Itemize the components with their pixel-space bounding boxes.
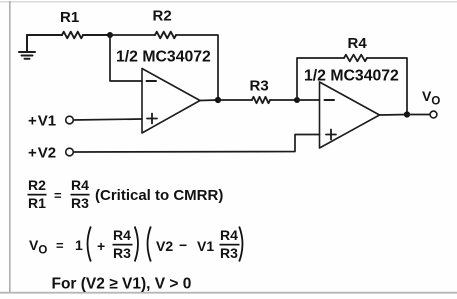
svg-text:For (V2 ≥ V1), V > 0: For (V2 ≥ V1), V > 0 xyxy=(52,276,192,293)
svg-text:(Critical to CMRR): (Critical to CMRR) xyxy=(95,187,223,204)
wire ground to R1 xyxy=(27,34,62,36)
svg-text:−: − xyxy=(179,237,187,253)
svg-text:R4: R4 xyxy=(71,177,89,193)
resistor R1 xyxy=(62,32,83,39)
svg-text:R2: R2 xyxy=(153,8,172,25)
wire node C to U2 inverting input xyxy=(297,99,320,101)
ground xyxy=(19,35,35,59)
wire U1 output to node B xyxy=(200,99,218,102)
wire R3 to node C xyxy=(270,99,297,101)
resistor R2 xyxy=(155,32,176,39)
node C xyxy=(294,97,300,103)
wire node A to U1 inverting input xyxy=(110,35,142,81)
wire node C up to R4 feedback xyxy=(297,58,344,100)
terminal +V1 open circle xyxy=(66,116,74,124)
node A xyxy=(107,32,113,38)
formula 2: VO = 1( + R4/R3)(V2 - V1 R4/R3) xyxy=(29,227,243,262)
node B xyxy=(215,97,221,103)
svg-text:R4: R4 xyxy=(220,227,238,243)
svg-text:R3: R3 xyxy=(113,245,131,261)
svg-text:+: + xyxy=(97,238,105,254)
wire R1 to node A xyxy=(83,34,110,36)
svg-text:+V2: +V2 xyxy=(28,145,56,162)
svg-text:=: = xyxy=(54,188,62,203)
svg-text:V2: V2 xyxy=(156,238,173,254)
wire +V2 to U2 noninverting input xyxy=(73,135,319,153)
op-amp U1 xyxy=(142,69,200,134)
wire node B to R3 xyxy=(218,99,252,101)
wire R2 to op-amp U1 output node xyxy=(176,35,218,100)
svg-text:1: 1 xyxy=(75,237,83,253)
op-amp U2 xyxy=(320,82,380,148)
svg-text:R3: R3 xyxy=(220,245,238,261)
resistor R3 xyxy=(252,97,270,103)
svg-text:R4: R4 xyxy=(348,35,368,52)
svg-text:1/2 MC34072: 1/2 MC34072 xyxy=(304,68,399,85)
svg-text:R3: R3 xyxy=(250,78,269,95)
svg-text:R4: R4 xyxy=(113,227,131,243)
svg-text:R1: R1 xyxy=(28,195,46,211)
svg-text:+V1: +V1 xyxy=(28,113,56,130)
resistor R4 xyxy=(344,55,367,62)
terminal VO open circle xyxy=(430,111,437,118)
svg-text:=: = xyxy=(56,238,64,253)
wire +V1 to U1 noninverting input xyxy=(73,119,142,120)
svg-text:R3: R3 xyxy=(71,195,89,211)
wire node D to VO terminal xyxy=(407,114,430,116)
wire U2 output to node D xyxy=(380,114,408,117)
svg-text:1/2 MC34072: 1/2 MC34072 xyxy=(116,49,211,66)
svg-text:R1: R1 xyxy=(60,9,79,26)
terminal +V2 open circle xyxy=(66,148,74,156)
svg-text:R2: R2 xyxy=(28,177,46,193)
svg-text:V1: V1 xyxy=(197,238,214,254)
wire R4 down to output node D xyxy=(367,58,407,115)
formula 1: R2/R1 = R4/R3 (Critical to CMRR) xyxy=(28,177,224,211)
wire node A to R2 xyxy=(110,34,155,36)
node D xyxy=(404,111,410,117)
